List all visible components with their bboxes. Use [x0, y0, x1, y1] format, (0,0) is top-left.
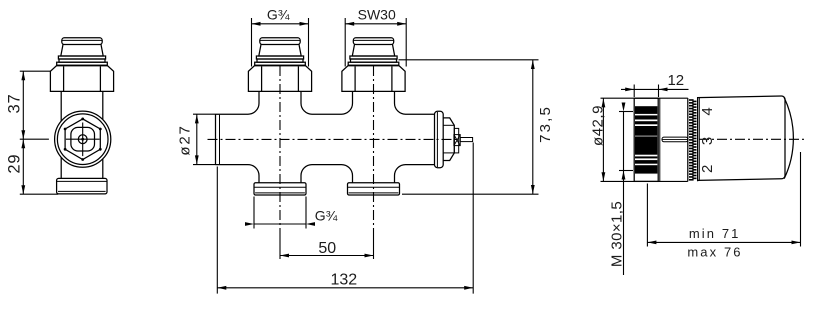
knurled ring M30 nut	[634, 98, 658, 181]
svg-text:2: 2	[699, 165, 716, 173]
spindle pin	[460, 138, 472, 142]
union nut of valve side view	[50, 66, 113, 92]
thread M30x1,5 leader line and arrows	[619, 103, 633, 276]
svg-text:4: 4	[699, 107, 716, 115]
adjustment pin on collar	[662, 137, 688, 142]
dimension line 73,5	[531, 60, 535, 194]
svg-text:G¾: G¾	[267, 7, 290, 23]
svg-text:12: 12	[667, 72, 684, 89]
dimension line 50	[280, 254, 374, 258]
dimension diameter 27: extension lines	[193, 114, 216, 164]
svg-text:ø27: ø27	[177, 124, 194, 155]
thermostatic head centerline	[699, 138, 806, 140]
svg-text:G¾: G¾	[315, 208, 338, 224]
dimension min71/max76: extension lines	[647, 152, 800, 247]
dimension line 29	[21, 139, 25, 194]
svg-text:SW30: SW30	[358, 7, 396, 23]
spindle small circle	[78, 135, 87, 144]
dimension SW30: extension lines	[345, 18, 406, 67]
svg-text:3: 3	[699, 137, 716, 145]
valve bonnet hexagon	[443, 118, 454, 161]
protection cap of left radiator connection	[255, 38, 306, 65]
dimension G3/4 top: extension lines	[252, 18, 309, 67]
right outlet collar	[348, 183, 400, 195]
valve body tube (side view)	[61, 91, 103, 178]
svg-text:73,5: 73,5	[537, 105, 554, 143]
union nut of right radiator connection	[342, 66, 405, 92]
bottom collar of side view	[57, 178, 107, 194]
valve flange disc at right end	[435, 111, 444, 167]
dimension line SW30	[345, 22, 406, 26]
dimension line 12	[621, 88, 689, 92]
dimension G3/4 bottom: extension lines	[254, 197, 306, 229]
left top branch tube with fillets	[248, 91, 312, 114]
svg-text:ø42,9: ø42,9	[590, 105, 607, 146]
dimension diameter 42,9 line	[602, 98, 606, 181]
dimension 37/29 extension lines	[20, 71, 58, 194]
dimension line diameter 27	[195, 114, 199, 164]
dimension line 37	[21, 71, 25, 139]
dimension 12: extension lines	[634, 85, 658, 98]
graduation tick strip	[689, 99, 697, 180]
left outlet branch with fillets	[248, 165, 312, 183]
dimension line G3/4 top	[252, 22, 309, 26]
H-block valve centerlines	[208, 66, 460, 259]
dimension 73,5: extension lines	[399, 60, 539, 194]
valve spindle housing	[454, 128, 458, 153]
left outlet collar	[254, 183, 306, 195]
svg-text:50: 50	[318, 240, 336, 257]
dimension 132: extension lines	[217, 143, 473, 294]
head collar outline	[601, 98, 688, 181]
union nut of left radiator connection	[248, 66, 311, 92]
right top branch tube with fillets	[342, 91, 406, 114]
svg-text:max 76: max 76	[687, 244, 742, 259]
svg-text:min 71: min 71	[689, 226, 741, 241]
head body outline	[698, 96, 785, 181]
dimension line G3/4 bottom	[245, 222, 315, 226]
svg-text:29: 29	[6, 154, 24, 174]
dimension line 132	[217, 286, 473, 290]
svg-text:132: 132	[330, 272, 357, 289]
protection cap of right radiator connection	[348, 38, 399, 65]
dimension line min71/max76	[647, 241, 800, 245]
svg-text:37: 37	[6, 94, 24, 114]
head dome end arc	[784, 98, 793, 179]
cap inner insert shape	[71, 127, 95, 151]
protection cap of valve side view	[57, 38, 108, 65]
crosshair	[66, 123, 100, 157]
svg-text:M 30×1,5: M 30×1,5	[608, 201, 625, 267]
valve spindle tip cross	[454, 135, 460, 146]
valve front boss outer ring	[55, 111, 111, 167]
plastic cap hexagon	[64, 118, 102, 161]
H-block main tube outline	[216, 114, 435, 164]
scale numbers 2 3 4	[699, 107, 716, 173]
right outlet branch with fillets	[342, 165, 406, 183]
